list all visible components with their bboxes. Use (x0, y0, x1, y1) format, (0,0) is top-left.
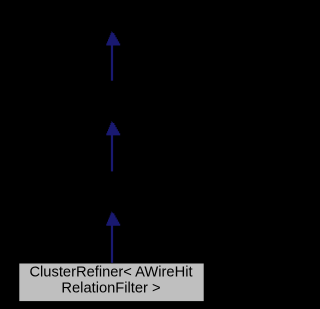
svg-text:RelationFilter >: RelationFilter > (61, 280, 160, 296)
svg-text:ClusterRefiner< AWireHit: ClusterRefiner< AWireHit (29, 265, 192, 281)
inheritance arrow 3 (bottom) (105, 211, 121, 262)
inheritance arrow 1 (top) (105, 31, 121, 81)
inheritance arrow 2 (middle) (105, 121, 121, 171)
class node box: ClusterRefiner< AWireHitRelationFilter > (19, 264, 203, 302)
